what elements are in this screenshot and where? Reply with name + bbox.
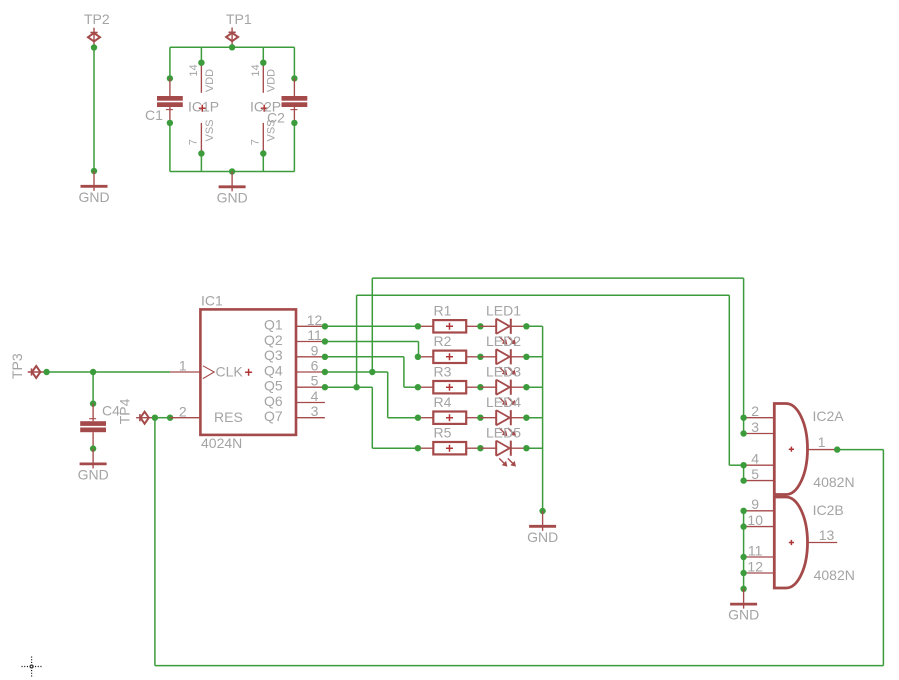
junction LED3 cathode	[523, 384, 529, 390]
pin 4 (IC2A) line	[744, 464, 775, 466]
pin 10 (IC2B) line	[744, 526, 775, 528]
svg-text:VSS: VSS	[204, 119, 216, 141]
svg-text:TP4: TP4	[117, 398, 133, 424]
wire Q3 to R3	[404, 386, 418, 388]
junction TP2 pin	[91, 44, 97, 50]
pin 12 (IC2B) line	[744, 572, 775, 574]
wire Q2 horizontal	[325, 341, 419, 343]
AND gate IC2B (4082)	[774, 497, 807, 588]
junction LED gnd node	[539, 508, 545, 514]
junction IC2A pin5	[740, 477, 746, 483]
svg-text:14: 14	[188, 64, 200, 76]
junction IC1P pin7	[198, 150, 204, 156]
wire reset right riser	[882, 450, 884, 666]
svg-text:4: 4	[751, 451, 759, 467]
svg-text:5: 5	[311, 373, 319, 389]
wire LED4 to bus	[526, 417, 542, 419]
svg-text:Q1: Q1	[264, 317, 283, 333]
junction IC2B pin9	[740, 508, 746, 514]
svg-text:LED4: LED4	[486, 394, 521, 410]
svg-text:3: 3	[311, 403, 319, 419]
svg-text:Q5: Q5	[264, 378, 283, 394]
wire reset drop	[154, 418, 156, 666]
wire pin9-12 chain	[743, 511, 745, 589]
IC U1: IC1 4024N box	[200, 309, 296, 435]
junction Q4 tap	[369, 369, 375, 375]
wire reset bottom	[155, 665, 884, 667]
pin Q2 (11) line	[296, 341, 325, 343]
junction IC2P pin14	[260, 60, 266, 66]
junction R4 left	[415, 415, 421, 421]
svg-text:GND: GND	[78, 467, 109, 483]
IC1 origin	[245, 369, 252, 376]
wire Q2 down to R2	[418, 342, 420, 357]
wire C4 branch	[92, 372, 94, 404]
junction RES pin end	[167, 415, 173, 421]
LED LED2	[480, 349, 526, 375]
pin 1 output (IC2A)	[808, 449, 838, 451]
svg-text:GND: GND	[217, 189, 248, 205]
wire net A top	[372, 277, 743, 279]
junction C2 top	[291, 75, 297, 81]
svg-text:12: 12	[747, 558, 763, 574]
svg-text:IC2P: IC2P	[250, 99, 281, 115]
AND gate IC2A (4082)	[774, 404, 807, 495]
resistor R3	[418, 381, 481, 393]
svg-text:1: 1	[179, 358, 187, 374]
svg-text:IC2A: IC2A	[813, 408, 845, 424]
wire Q5 to R5	[372, 447, 418, 449]
svg-text:2: 2	[751, 403, 759, 419]
svg-text:RES: RES	[214, 409, 243, 425]
wire net B top	[357, 294, 730, 296]
svg-text:11: 11	[748, 542, 763, 558]
junction TP3 pin	[43, 369, 49, 375]
LED LED3	[480, 380, 526, 406]
svg-text:5: 5	[751, 466, 759, 482]
wire LED3 to bus	[526, 386, 542, 388]
junction TP4 pin / RES node	[152, 415, 158, 421]
svg-text:R2: R2	[434, 333, 452, 349]
op IC2P origin	[261, 105, 268, 112]
pin Q5 (5) line	[296, 386, 325, 388]
svg-text:CLK: CLK	[216, 363, 244, 379]
wire LED2 to bus	[526, 356, 542, 358]
pin Q3 (9) line	[296, 356, 325, 358]
svg-text:LED2: LED2	[486, 333, 521, 349]
junction IC2A out	[834, 446, 840, 452]
junction C1 top	[167, 75, 173, 81]
wire Q4 to R4	[388, 417, 418, 419]
svg-text:4082N: 4082N	[814, 567, 855, 583]
svg-text:9: 9	[751, 496, 759, 512]
wire Q4 down	[387, 372, 389, 418]
ground GND4	[529, 511, 556, 531]
pin RES (2) line	[170, 417, 200, 419]
svg-text:Q3: Q3	[264, 347, 283, 363]
svg-text:4: 4	[311, 388, 319, 404]
LED LED1	[480, 319, 526, 345]
junction R5 left	[415, 445, 421, 451]
wire Q5 riser	[356, 295, 358, 387]
svg-text:Q2: Q2	[264, 332, 283, 348]
resistor R2	[418, 351, 481, 363]
junction R3 left	[415, 384, 421, 390]
wire VDD top rail	[170, 46, 295, 48]
svg-text:LED3: LED3	[486, 363, 521, 379]
svg-text:R1: R1	[434, 303, 452, 319]
op IC1P origin	[199, 105, 206, 112]
junction IC2A pin3	[740, 430, 746, 436]
junction TP1 pin / VDD node	[229, 44, 235, 50]
IC2A origin	[789, 447, 794, 452]
testpoint TP3	[28, 366, 47, 378]
svg-text:7: 7	[188, 139, 200, 145]
junction IC2B pin11	[740, 554, 746, 560]
junction C2 bottom	[291, 120, 297, 126]
resistor R4	[418, 412, 481, 424]
power pins IC1P pin 14 VDD	[200, 63, 202, 93]
wire IC1P vdd stub	[200, 47, 202, 62]
svg-text:TP2: TP2	[84, 11, 110, 27]
junction R1 left	[415, 323, 421, 329]
svg-text:IC1P: IC1P	[188, 99, 219, 115]
junction Q3 pin end	[322, 354, 328, 360]
svg-text:12: 12	[307, 312, 323, 328]
junction Q5 tap	[353, 384, 359, 390]
junction IC2B pin10	[740, 523, 746, 529]
resistor R5	[418, 442, 481, 454]
wire left rail upper	[169, 47, 171, 78]
svg-text:TP3: TP3	[9, 353, 25, 379]
svg-text:TP1: TP1	[226, 11, 252, 27]
capacitor C2	[282, 78, 308, 123]
wire Q5 horizontal	[325, 386, 372, 388]
testpoint TP2	[88, 28, 100, 47]
wire left rail lower	[169, 123, 171, 172]
svg-text:VSS: VSS	[266, 119, 278, 141]
junction IC2B gnd node	[740, 586, 746, 592]
svg-text:LED1: LED1	[486, 302, 521, 318]
wire pin4-5 link	[743, 465, 745, 480]
wire net B drop	[728, 295, 730, 465]
svg-text:Q7: Q7	[264, 408, 283, 424]
wire gate out to riser	[837, 449, 883, 451]
wire net A drop	[743, 278, 745, 418]
svg-text:R4: R4	[434, 394, 452, 410]
junction Q2 pin end	[322, 338, 328, 344]
junction LED1 cathode	[523, 323, 529, 329]
ground GND2	[219, 172, 246, 192]
wire Q5 down	[371, 387, 373, 448]
wire Q1-R1	[325, 325, 418, 327]
pin 13 output (IC2B)	[808, 542, 838, 544]
junction R2 left	[415, 354, 421, 360]
svg-text:Q4: Q4	[264, 362, 283, 378]
junction C4 top	[90, 400, 96, 406]
junction LED5 cathode	[523, 445, 529, 451]
pin Q7 (3) line	[296, 417, 325, 419]
sheet origin cross	[22, 657, 43, 678]
pin 3 (IC2A) line	[744, 433, 775, 435]
wire right rail lower	[293, 123, 295, 172]
junction LED4 cathode	[523, 415, 529, 421]
svg-text:13: 13	[819, 527, 835, 543]
capacitor C4	[80, 404, 106, 449]
svg-text:C1: C1	[145, 107, 163, 123]
svg-text:R3: R3	[434, 364, 452, 380]
junction Q4 pin end	[322, 369, 328, 375]
junction Q1 pin end	[322, 323, 328, 329]
wire right rail upper	[293, 47, 295, 78]
testpoint TP4	[136, 412, 155, 424]
wire pin2-3 link	[743, 418, 745, 434]
testpoint TP1	[226, 28, 238, 47]
LED LED5	[480, 441, 526, 467]
svg-text:LED5: LED5	[486, 424, 521, 440]
wire cathode bus	[542, 326, 544, 511]
capacitor C1	[157, 78, 183, 123]
junction IC1P pin14	[198, 60, 204, 66]
svg-text:9: 9	[311, 342, 319, 358]
resistor R1	[418, 320, 481, 332]
clock wedge	[203, 366, 214, 379]
wire Q3 horizontal	[325, 356, 404, 358]
svg-text:VDD: VDD	[204, 69, 216, 92]
wire Q4 riser	[371, 278, 373, 372]
svg-text:Q6: Q6	[264, 393, 283, 409]
IC2B origin	[789, 540, 794, 545]
svg-text:R5: R5	[434, 425, 452, 441]
svg-text:6: 6	[311, 358, 319, 374]
junction R2 right	[477, 354, 483, 360]
LED LED4	[480, 410, 526, 436]
wire IC2P vss stub	[262, 154, 264, 172]
svg-text:2: 2	[179, 403, 187, 419]
junction IC2B pin12	[740, 570, 746, 576]
junction IC2P pin7	[260, 150, 266, 156]
wire net B to pin4	[729, 464, 743, 466]
junction R3 right	[477, 384, 483, 390]
svg-text:IC1: IC1	[201, 292, 223, 308]
svg-text:4024N: 4024N	[201, 435, 242, 451]
pin Q6 (4) line	[296, 402, 325, 404]
wire IC1P vss stub	[200, 154, 202, 172]
svg-text:GND: GND	[79, 189, 110, 205]
wire RES net	[155, 417, 170, 419]
svg-text:GND: GND	[527, 529, 558, 545]
svg-text:14: 14	[250, 64, 262, 76]
power pins IC2P pin 14 VDD	[262, 63, 264, 93]
junction IC2A pin2	[740, 415, 746, 421]
wire CLK net	[47, 371, 171, 373]
junction R4 right	[477, 415, 483, 421]
svg-text:3: 3	[751, 419, 759, 435]
ground GND3	[80, 449, 107, 469]
wire VSS bottom rail	[170, 171, 295, 173]
pin 2 (IC2A) line	[744, 417, 775, 419]
junction C4 tap	[90, 369, 96, 375]
junction TP2 gnd node	[91, 168, 97, 174]
junction R5 right	[477, 445, 483, 451]
junction R1 right	[477, 323, 483, 329]
svg-text:IC2B: IC2B	[813, 502, 844, 518]
wire IC2P vdd stub	[262, 47, 264, 62]
svg-text:7: 7	[250, 139, 262, 145]
junction C1 bottom	[167, 120, 173, 126]
svg-text:VDD: VDD	[266, 69, 278, 92]
ground GND5	[730, 589, 757, 609]
wire Q4 horizontal	[325, 371, 388, 373]
pin 11 (IC2B) line	[744, 556, 775, 558]
junction mid gnd node	[229, 168, 235, 174]
wire TP2 to GND	[93, 48, 95, 172]
svg-text:10: 10	[747, 512, 763, 528]
power pins IC1P pin 7 VSS	[200, 123, 202, 154]
junction IC2A pin4	[740, 462, 746, 468]
wire LED1 to bus	[526, 325, 542, 327]
junction LED2 cathode	[523, 354, 529, 360]
pin 5 (IC2A) line	[744, 480, 775, 482]
junction Q5 pin end	[322, 384, 328, 390]
power pins IC2P pin 7 VSS	[262, 123, 264, 154]
wire Q3 down	[403, 357, 405, 387]
svg-text:11: 11	[307, 327, 322, 343]
pin CLK (1) line	[170, 371, 200, 373]
svg-text:4082N: 4082N	[813, 474, 854, 490]
junction C4 bottom	[90, 445, 96, 451]
pin Q1 (12) line	[296, 325, 325, 327]
pin 9 (IC2B) line	[744, 510, 775, 512]
ground GND1	[81, 171, 108, 191]
wire LED5 to bus	[526, 447, 542, 449]
svg-text:GND: GND	[728, 607, 759, 623]
pin Q4 (6) line	[296, 371, 325, 373]
svg-text:1: 1	[818, 434, 826, 450]
